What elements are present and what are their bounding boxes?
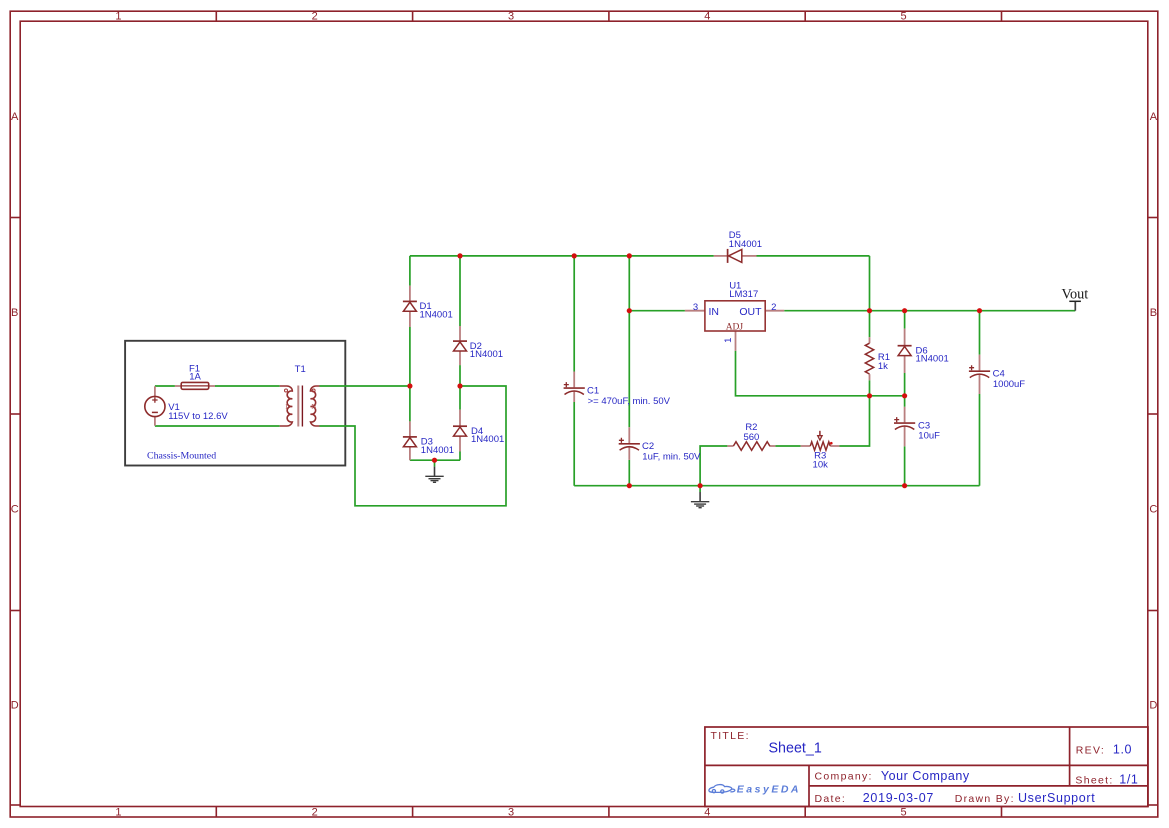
svg-text:2: 2 xyxy=(771,302,776,313)
svg-text:1N4001: 1N4001 xyxy=(916,354,949,365)
svg-text:B: B xyxy=(11,307,18,319)
svg-text:C4: C4 xyxy=(993,368,1005,379)
svg-text:Vout: Vout xyxy=(1062,287,1089,303)
svg-text:OUT: OUT xyxy=(739,306,762,318)
svg-text:EasyEDA: EasyEDA xyxy=(737,783,801,795)
svg-text:1k: 1k xyxy=(878,361,888,372)
svg-text:115V to 12.6V: 115V to 12.6V xyxy=(168,411,228,422)
svg-text:1N4001: 1N4001 xyxy=(471,434,504,445)
svg-text:Chassis-Mounted: Chassis-Mounted xyxy=(147,450,216,461)
svg-text:Your Company: Your Company xyxy=(881,769,970,783)
svg-text:ADJ: ADJ xyxy=(726,322,744,332)
svg-text:T1: T1 xyxy=(295,364,306,375)
svg-text:Sheet:: Sheet: xyxy=(1075,774,1113,786)
svg-text:2: 2 xyxy=(312,10,318,22)
svg-text:A: A xyxy=(1150,111,1158,123)
svg-text:C: C xyxy=(11,503,19,515)
svg-text:B: B xyxy=(1150,307,1157,319)
svg-text:Date:: Date: xyxy=(815,793,847,805)
svg-text:Sheet_1: Sheet_1 xyxy=(769,741,822,757)
svg-text:10uF: 10uF xyxy=(918,431,940,442)
svg-text:1: 1 xyxy=(115,807,121,819)
svg-text:1: 1 xyxy=(115,10,121,22)
svg-text:Company:: Company: xyxy=(815,771,873,783)
svg-text:1N4001: 1N4001 xyxy=(420,309,453,320)
svg-text:C2: C2 xyxy=(642,441,654,452)
svg-text:3: 3 xyxy=(508,10,514,22)
svg-text:1.0: 1.0 xyxy=(1113,743,1132,757)
svg-text:5: 5 xyxy=(901,10,907,22)
svg-text:UserSupport: UserSupport xyxy=(1018,791,1095,805)
svg-text:D: D xyxy=(11,700,19,712)
svg-text:3: 3 xyxy=(508,807,514,819)
svg-text:4: 4 xyxy=(704,807,710,819)
svg-text:TITLE:: TITLE: xyxy=(711,730,750,742)
svg-text:1A: 1A xyxy=(189,372,201,383)
svg-text:2: 2 xyxy=(312,807,318,819)
svg-text:560: 560 xyxy=(743,432,759,443)
svg-text:5: 5 xyxy=(901,807,907,819)
svg-text:IN: IN xyxy=(709,306,720,318)
svg-text:1/1: 1/1 xyxy=(1119,772,1138,786)
svg-text:1: 1 xyxy=(723,338,734,343)
svg-text:N: N xyxy=(311,402,317,411)
svg-text:C: C xyxy=(1149,503,1157,515)
svg-text:3: 3 xyxy=(693,302,698,313)
svg-text:LM317: LM317 xyxy=(729,289,758,300)
svg-text:Drawn By:: Drawn By: xyxy=(955,793,1015,805)
svg-text:2019-03-07: 2019-03-07 xyxy=(863,791,934,805)
svg-text:1uF, min. 50V: 1uF, min. 50V xyxy=(642,452,701,463)
svg-text:1N4001: 1N4001 xyxy=(421,445,454,456)
svg-text:4: 4 xyxy=(704,10,710,22)
svg-text:1N4001: 1N4001 xyxy=(729,239,762,250)
svg-text:A: A xyxy=(11,111,19,123)
svg-text:1N4001: 1N4001 xyxy=(470,349,503,360)
svg-text:1000uF: 1000uF xyxy=(993,379,1025,390)
svg-text:10k: 10k xyxy=(813,460,829,471)
svg-text:D: D xyxy=(1149,700,1157,712)
svg-text:C1: C1 xyxy=(587,385,599,396)
svg-text:>= 470uF, min. 50V: >= 470uF, min. 50V xyxy=(588,396,671,407)
svg-text:REV:: REV: xyxy=(1076,745,1105,757)
